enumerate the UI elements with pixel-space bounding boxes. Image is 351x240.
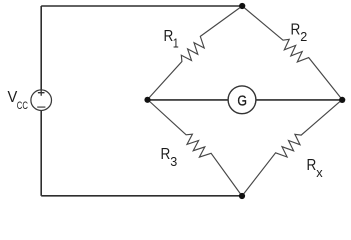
svg-text:R: R	[307, 157, 317, 174]
wire left vertical upper	[40, 6, 42, 90]
node left	[144, 97, 150, 103]
svg-text:R: R	[291, 22, 301, 39]
node bottom	[239, 193, 245, 199]
resistor Rx	[242, 100, 342, 196]
resistor R1	[148, 6, 243, 100]
label R3	[161, 146, 178, 169]
wire left vertical lower	[40, 110, 42, 196]
svg-text:R: R	[161, 146, 171, 163]
wire galvanometer left	[148, 99, 229, 101]
node right	[339, 97, 345, 103]
galvanometer U1	[228, 86, 256, 114]
svg-text:G: G	[237, 93, 247, 110]
svg-text:x: x	[316, 165, 323, 180]
label Rx	[307, 157, 324, 180]
resistor R2	[242, 6, 342, 100]
svg-text:CC: CC	[17, 100, 28, 112]
label R1	[164, 28, 179, 51]
label Vcc	[8, 89, 29, 112]
svg-text:1: 1	[173, 36, 179, 51]
plus terminal mark	[38, 90, 45, 96]
wire galvanometer right	[256, 99, 342, 101]
source circle	[31, 90, 52, 111]
minus terminal mark	[37, 106, 45, 108]
voltage source Vcc	[31, 90, 52, 111]
svg-text:2: 2	[300, 29, 307, 44]
wire bottom horizontal	[41, 195, 242, 197]
wire top horizontal	[41, 5, 242, 7]
galvanometer circle	[228, 86, 256, 114]
label R2	[291, 22, 308, 45]
node top	[239, 3, 245, 9]
resistor R3	[148, 100, 243, 197]
svg-text:3: 3	[170, 154, 177, 169]
